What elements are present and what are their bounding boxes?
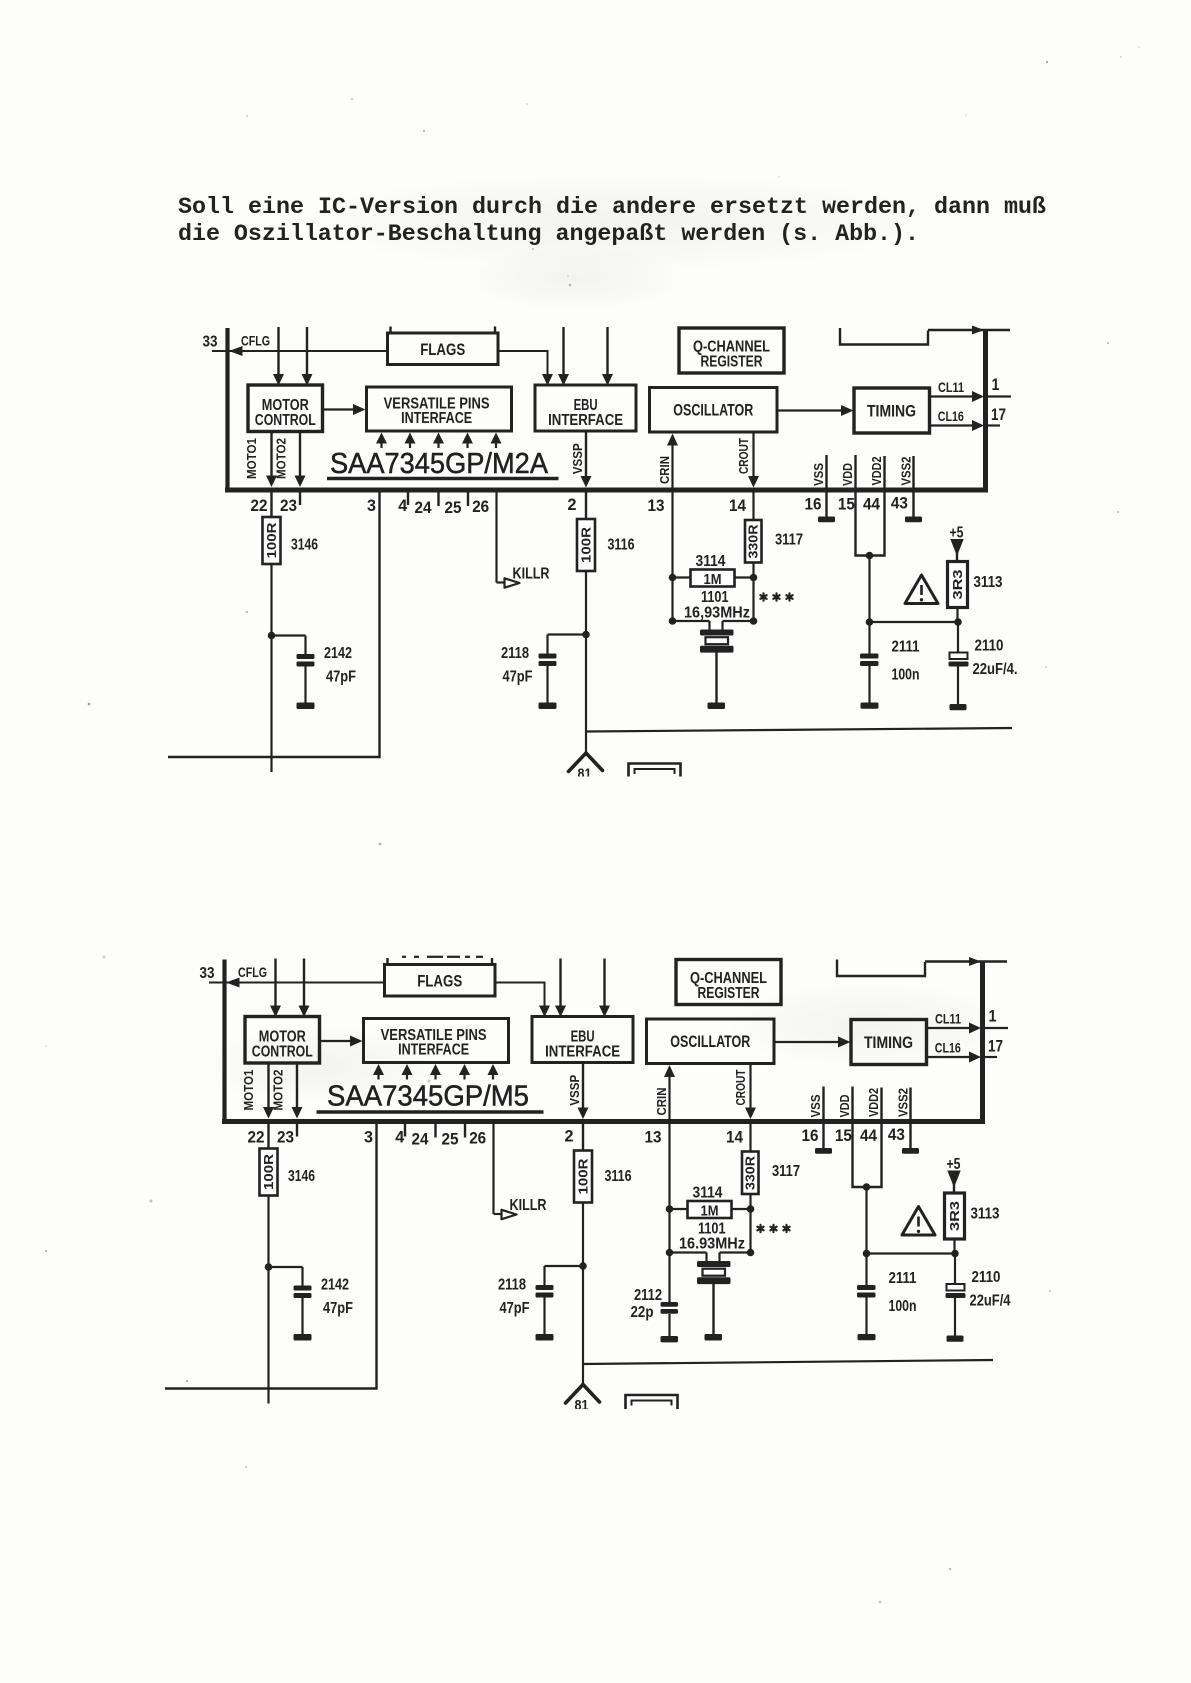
svg-text:INTERFACE: INTERFACE xyxy=(398,1042,469,1059)
svg-text:Soll eine IC-Version durch die: Soll eine IC-Version durch die andere er… xyxy=(178,195,1046,221)
svg-text:3113: 3113 xyxy=(971,1206,1000,1223)
svg-text:33: 33 xyxy=(203,334,218,351)
svg-text:MOTO2: MOTO2 xyxy=(272,1069,286,1110)
svg-text:25: 25 xyxy=(442,1131,459,1149)
svg-text:CFLG: CFLG xyxy=(241,333,270,349)
svg-text:2112: 2112 xyxy=(634,1287,662,1304)
svg-text:1101: 1101 xyxy=(701,589,729,606)
svg-text:CL11: CL11 xyxy=(935,1012,961,1027)
svg-text:25: 25 xyxy=(445,499,462,517)
svg-text:16: 16 xyxy=(805,496,822,514)
svg-text:FLAGS: FLAGS xyxy=(420,340,465,359)
svg-text:INTERFACE: INTERFACE xyxy=(548,412,623,429)
svg-text:SAA7345GP/M5: SAA7345GP/M5 xyxy=(327,1081,529,1113)
svg-text:26: 26 xyxy=(472,498,489,516)
svg-text:47pF: 47pF xyxy=(503,669,533,686)
svg-text:KILLR: KILLR xyxy=(513,566,550,583)
svg-text:MOTO2: MOTO2 xyxy=(275,438,289,479)
svg-text:33: 33 xyxy=(200,965,215,982)
svg-text:VSS2: VSS2 xyxy=(896,1088,910,1117)
svg-text:3116: 3116 xyxy=(608,537,635,554)
svg-text:4: 4 xyxy=(395,1129,405,1147)
svg-text:VSS2: VSS2 xyxy=(899,456,913,485)
svg-text:2142: 2142 xyxy=(321,1277,349,1294)
svg-text:17: 17 xyxy=(991,406,1006,424)
svg-text:2118: 2118 xyxy=(501,645,529,662)
svg-text:15: 15 xyxy=(835,1127,852,1145)
svg-text:2110: 2110 xyxy=(972,1269,1001,1286)
svg-text:CL16: CL16 xyxy=(935,1041,961,1056)
svg-text:13: 13 xyxy=(648,497,665,515)
svg-text:MOTO1: MOTO1 xyxy=(242,1069,256,1110)
svg-text:CL16: CL16 xyxy=(938,409,964,424)
svg-text:100R: 100R xyxy=(262,1154,276,1190)
svg-text:14: 14 xyxy=(729,497,747,515)
svg-text:INTERFACE: INTERFACE xyxy=(401,410,472,427)
svg-text:1: 1 xyxy=(992,376,1000,394)
svg-text:3: 3 xyxy=(367,497,376,515)
svg-text:43: 43 xyxy=(888,1126,905,1144)
svg-text:16: 16 xyxy=(802,1127,819,1145)
svg-text:TIMING: TIMING xyxy=(864,1034,913,1052)
svg-text:+5: +5 xyxy=(950,525,964,542)
svg-text:VSS: VSS xyxy=(809,1095,823,1118)
svg-text:VSSP: VSSP xyxy=(571,443,585,474)
svg-text:1: 1 xyxy=(989,1008,997,1026)
svg-text:CL11: CL11 xyxy=(938,380,964,395)
svg-text:47pF: 47pF xyxy=(326,669,356,686)
svg-text:INTERFACE: INTERFACE xyxy=(545,1044,620,1061)
svg-text:100R: 100R xyxy=(580,527,594,563)
svg-text:100R: 100R xyxy=(577,1159,591,1195)
svg-text:4: 4 xyxy=(398,497,408,515)
svg-text:47pF: 47pF xyxy=(500,1300,530,1317)
svg-text:330R: 330R xyxy=(744,1156,758,1190)
svg-text:3R3: 3R3 xyxy=(951,569,965,599)
svg-text:24: 24 xyxy=(412,1131,430,1149)
svg-text:+5: +5 xyxy=(947,1156,961,1173)
svg-text:MOTO1: MOTO1 xyxy=(245,438,259,479)
svg-text:2110: 2110 xyxy=(975,638,1004,655)
svg-text:22uF/4.: 22uF/4. xyxy=(973,661,1018,678)
svg-text:100n: 100n xyxy=(889,1298,917,1315)
svg-text:1M: 1M xyxy=(704,572,722,588)
svg-text:3114: 3114 xyxy=(696,553,726,570)
svg-text:3: 3 xyxy=(364,1129,373,1147)
svg-text:3114: 3114 xyxy=(693,1185,723,1202)
svg-text:3117: 3117 xyxy=(772,1163,800,1180)
svg-text:CRIN: CRIN xyxy=(658,456,672,484)
svg-text:24: 24 xyxy=(415,499,433,517)
svg-text:REGISTER: REGISTER xyxy=(698,985,760,1002)
svg-text:2: 2 xyxy=(568,496,577,514)
svg-text:3113: 3113 xyxy=(974,574,1003,591)
svg-text:OSCILLATOR: OSCILLATOR xyxy=(673,402,753,420)
svg-text:VSSP: VSSP xyxy=(568,1075,582,1106)
svg-text:REGISTER: REGISTER xyxy=(701,354,763,371)
svg-text:1M: 1M xyxy=(701,1204,719,1220)
svg-text:CROUT: CROUT xyxy=(737,438,751,474)
svg-text:OSCILLATOR: OSCILLATOR xyxy=(670,1033,750,1051)
svg-text:47pF: 47pF xyxy=(323,1300,353,1317)
svg-text:CROUT: CROUT xyxy=(734,1069,748,1105)
svg-text:22uF/4: 22uF/4 xyxy=(970,1293,1011,1310)
svg-text:2111: 2111 xyxy=(889,1270,917,1287)
svg-text:VDD2: VDD2 xyxy=(867,1088,881,1117)
svg-text:FLAGS: FLAGS xyxy=(417,972,462,991)
svg-text:23: 23 xyxy=(277,1129,294,1147)
svg-text:CONTROL: CONTROL xyxy=(252,1044,313,1061)
svg-text:3146: 3146 xyxy=(288,1168,315,1185)
svg-text:16,93MHz: 16,93MHz xyxy=(684,605,750,622)
svg-text:15: 15 xyxy=(838,496,855,514)
svg-text:16.93MHz: 16.93MHz xyxy=(679,1236,745,1253)
svg-text:13: 13 xyxy=(645,1129,662,1147)
svg-text:22p: 22p xyxy=(631,1304,654,1321)
svg-text:26: 26 xyxy=(469,1130,486,1148)
svg-text:TIMING: TIMING xyxy=(867,403,916,421)
svg-text:2111: 2111 xyxy=(892,639,920,656)
svg-text:3117: 3117 xyxy=(775,532,803,549)
svg-text:2118: 2118 xyxy=(498,1277,526,1294)
svg-text:CRIN: CRIN xyxy=(655,1088,669,1116)
svg-text:44: 44 xyxy=(863,496,881,514)
svg-text:VDD: VDD xyxy=(838,1095,852,1118)
svg-text:2142: 2142 xyxy=(324,645,352,662)
svg-text:100R: 100R xyxy=(265,523,279,559)
svg-text:3R3: 3R3 xyxy=(948,1201,962,1231)
svg-text:3116: 3116 xyxy=(605,1168,632,1185)
svg-text:43: 43 xyxy=(891,495,908,513)
svg-text:44: 44 xyxy=(860,1127,878,1145)
svg-text:22: 22 xyxy=(251,497,268,515)
svg-text:die Oszillator-Beschaltung ang: die Oszillator-Beschaltung angepaßt werd… xyxy=(178,222,919,248)
svg-text:CFLG: CFLG xyxy=(238,964,267,980)
svg-text:22: 22 xyxy=(248,1129,265,1147)
svg-text:23: 23 xyxy=(280,497,297,515)
svg-text:VDD2: VDD2 xyxy=(870,456,884,485)
svg-text:14: 14 xyxy=(726,1129,744,1147)
svg-text:2: 2 xyxy=(565,1128,574,1146)
svg-text:100n: 100n xyxy=(892,667,920,684)
svg-text:330R: 330R xyxy=(747,525,761,559)
svg-text:3146: 3146 xyxy=(291,537,318,554)
svg-text:VDD: VDD xyxy=(841,463,855,486)
svg-text:VSS: VSS xyxy=(812,463,826,486)
svg-text:CONTROL: CONTROL xyxy=(255,412,316,429)
svg-text:SAA7345GP/M2A: SAA7345GP/M2A xyxy=(330,448,549,480)
svg-text:KILLR: KILLR xyxy=(510,1197,547,1214)
svg-text:17: 17 xyxy=(988,1038,1003,1056)
